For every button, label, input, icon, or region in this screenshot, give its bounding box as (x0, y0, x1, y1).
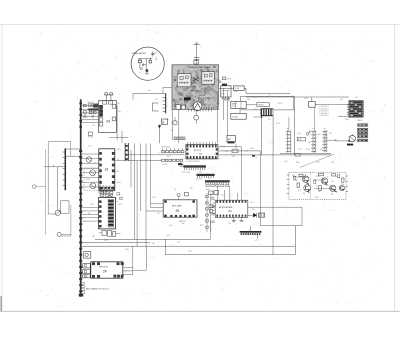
wire (45, 149, 47, 235)
svg-text:R109: R109 (345, 119, 349, 121)
svg-text:0.01: 0.01 (341, 184, 344, 186)
wire (171, 109, 173, 140)
wire (327, 140, 336, 141)
wire (217, 95, 219, 143)
IC 2F (91, 262, 124, 278)
svg-text:+ c: + c (109, 192, 111, 194)
diagonal leader (300, 154, 335, 167)
tuner shielded block (172, 65, 219, 111)
crystal X201 (99, 230, 121, 236)
transistor Q602 (304, 185, 311, 192)
svg-text:120: 120 (208, 178, 211, 180)
wires bus to IC 23 (81, 154, 99, 187)
svg-text:C204: C204 (297, 133, 301, 135)
svg-text:REMOTE IN: REMOTE IN (99, 267, 109, 269)
wire (146, 204, 163, 211)
rf amp symbol (193, 102, 202, 111)
svg-text:R109: R109 (214, 184, 218, 186)
arrow mark (306, 131, 310, 136)
wire (223, 88, 225, 120)
bus wire main (77, 97, 82, 297)
label AM chassis (86, 287, 109, 290)
grounds below IC 2X (232, 217, 244, 222)
wire (261, 116, 263, 155)
svg-text:C512: C512 (316, 162, 320, 164)
wire (218, 87, 233, 89)
svg-text:C512: C512 (304, 98, 308, 100)
wire (246, 104, 257, 106)
svg-text:ELECTRONIC TUNER: ELECTRONIC TUNER (190, 67, 211, 69)
node a (155, 57, 157, 61)
tuner bottom pins (189, 109, 212, 111)
svg-text:CN601: CN601 (357, 120, 362, 122)
transistor Q202 (90, 170, 96, 176)
component strip 2 (196, 174, 215, 181)
capacitor C21 (83, 116, 88, 119)
svg-text:C9: C9 (155, 53, 157, 55)
pin strip PW2 (311, 129, 317, 154)
wire (224, 190, 226, 200)
svg-text:0.01: 0.01 (252, 209, 255, 211)
capacitor C902 (143, 63, 147, 66)
wire (301, 207, 303, 226)
wire (216, 186, 218, 200)
wire (121, 131, 123, 143)
shield transformer L102 (202, 69, 215, 84)
svg-text:R211: R211 (225, 151, 229, 153)
wire (272, 116, 274, 155)
svg-text:R11 C12: R11 C12 (88, 102, 94, 104)
svg-text:Q2: Q2 (303, 193, 305, 195)
wire (95, 238, 211, 240)
svg-text:47uF: 47uF (86, 179, 90, 181)
svg-text:MIX 1OSC: MIX 1OSC (191, 91, 200, 93)
wire (44, 165, 65, 167)
wire (109, 136, 128, 138)
AFT box (227, 136, 235, 144)
wire (313, 107, 315, 130)
svg-text:C31 C32: C31 C32 (162, 164, 168, 166)
label audio box (303, 176, 337, 199)
wire (246, 92, 290, 94)
tuning assembly box (48, 142, 70, 214)
ceramic filter (231, 113, 246, 119)
svg-text:330: 330 (190, 188, 193, 190)
capacitor C901 (151, 52, 157, 57)
svg-text:R211: R211 (200, 225, 204, 227)
svg-text:560: 560 (88, 213, 91, 215)
mixer marks (191, 78, 200, 93)
wire (116, 160, 162, 162)
svg-text:05: 05 (296, 180, 298, 182)
svg-text:AM PO AMP: AM PO AMP (172, 204, 182, 207)
svg-text:C204: C204 (152, 197, 156, 199)
wire (335, 140, 350, 142)
wires in audio box (293, 177, 333, 188)
capacitor C22 (92, 115, 93, 118)
audio dashed box (289, 172, 346, 199)
connector pin label stack (357, 124, 367, 142)
IF filter CF101 (221, 84, 231, 100)
svg-text:R118: R118 (206, 189, 210, 191)
wire (338, 115, 349, 117)
wire (219, 154, 331, 156)
IC 20 (163, 200, 197, 217)
resistor row A (162, 147, 184, 153)
svg-text:Q3: Q3 (322, 178, 324, 180)
connector boxes left of 2F (83, 264, 91, 278)
label TP (88, 132, 93, 139)
svg-text:1 2 3 4 5 6 7 8 9 10: 1 2 3 4 5 6 7 8 9 10 (186, 161, 199, 163)
wire (81, 119, 99, 121)
component strip 3 (205, 180, 230, 186)
wire (145, 144, 147, 247)
svg-text:R109: R109 (316, 176, 320, 178)
node circles (224, 98, 229, 100)
svg-text:0.047: 0.047 (317, 134, 321, 136)
transistor Q201 (86, 157, 92, 163)
svg-text:R118: R118 (276, 123, 280, 125)
svg-text:C315: C315 (88, 146, 92, 148)
svg-text:o x: o x (116, 201, 118, 203)
svg-text:+: + (87, 117, 88, 119)
svg-text:R402: R402 (278, 103, 282, 105)
svg-text:24: 24 (106, 120, 110, 124)
resistor R220 (232, 144, 255, 157)
svg-text:330: 330 (116, 171, 119, 173)
svg-text:1500: 1500 (162, 151, 166, 153)
svg-text:120: 120 (292, 175, 295, 177)
connector CN501 (261, 108, 274, 116)
parts right of IC 20 (206, 193, 214, 239)
wire (81, 115, 99, 117)
wire (133, 94, 166, 100)
svg-text:1 2: 1 2 (269, 95, 271, 97)
svg-text:C118: C118 (298, 149, 302, 151)
wire (123, 246, 133, 274)
arrow down (158, 124, 161, 143)
svg-text:CF1: CF1 (222, 94, 225, 96)
label box P (297, 137, 305, 141)
svg-text:23: 23 (105, 167, 109, 171)
svg-text:CN 501: CN 501 (258, 105, 264, 107)
ferrite bead box (258, 213, 264, 217)
transistor Q604 (330, 185, 336, 191)
resistor R902 (149, 57, 151, 63)
wire (65, 149, 80, 156)
transistor Q605 (339, 185, 344, 190)
svg-text:C315: C315 (205, 219, 209, 221)
svg-text:330: 330 (268, 119, 271, 121)
label box on wire (295, 154, 301, 156)
wire (61, 205, 71, 236)
svg-text:0.01: 0.01 (118, 111, 121, 113)
svg-text:2F: 2F (103, 270, 107, 274)
wire (253, 116, 262, 117)
svg-text:100: 100 (335, 176, 338, 178)
svg-text:20: 20 (176, 209, 180, 213)
wire loop (241, 96, 294, 110)
transistor Q501 (349, 134, 355, 142)
bus terminal (79, 283, 84, 297)
pin strip PW3 (322, 129, 328, 153)
components left of IC 24 (81, 102, 99, 114)
parts inside tuner (174, 79, 213, 109)
capacitor above tuner (194, 42, 201, 64)
svg-text:Q4: Q4 (331, 194, 333, 196)
wire (240, 147, 242, 200)
connector J601 (240, 226, 262, 235)
transistor Q601 (303, 174, 309, 182)
svg-text:R211: R211 (117, 149, 121, 151)
IC 2X (215, 200, 248, 217)
pin strip PW1 (286, 129, 292, 154)
IC 23 (99, 149, 115, 191)
wire (133, 246, 146, 270)
svg-text:0.047: 0.047 (118, 204, 122, 206)
box VR block (61, 201, 69, 213)
wire (288, 117, 290, 131)
svg-text:C118: C118 (104, 240, 108, 242)
resistors in audio box (287, 173, 348, 193)
svg-text:C512: C512 (180, 163, 184, 165)
svg-text:3 2 6 4 1 8 5: 3 2 6 4 1 8 5 (182, 172, 190, 174)
IC 25 (99, 197, 116, 229)
svg-text:R305: R305 (234, 91, 238, 93)
svg-text:C118: C118 (188, 251, 192, 253)
resistor bar R601 (347, 144, 353, 146)
wire (248, 206, 302, 208)
wire (236, 193, 238, 200)
svg-text:C204: C204 (90, 204, 94, 206)
svg-text:R402: R402 (296, 162, 300, 164)
transistor Q603 (322, 178, 328, 184)
component value labels (84, 90, 358, 253)
IC 2B (186, 142, 218, 163)
wire (293, 96, 295, 155)
wire (244, 88, 246, 93)
svg-text:CX 480: CX 480 (232, 116, 238, 118)
wire (128, 154, 184, 156)
connector edge (163, 93, 168, 113)
wire (259, 151, 261, 226)
wire (81, 122, 99, 124)
meter M901 (140, 68, 143, 74)
components left of IC 2X (209, 190, 219, 213)
wire (163, 87, 172, 93)
svg-text:B 12: B 12 (298, 139, 302, 141)
wire (178, 109, 180, 143)
wire (150, 144, 152, 208)
wire (239, 109, 241, 114)
jack J102 (194, 109, 199, 124)
terminal box (161, 119, 167, 124)
pin stub (105, 93, 114, 101)
wire (136, 161, 138, 247)
svg-text:120: 120 (355, 97, 358, 99)
resistor R201 (216, 77, 232, 84)
wire (294, 226, 296, 255)
svg-text:R305: R305 (125, 249, 129, 251)
wire (164, 239, 166, 254)
svg-text:P3: P3 (324, 129, 326, 131)
resistor row B (162, 159, 183, 166)
svg-text:1 3 5 2 6: 1 3 5 2 6 (196, 179, 202, 181)
wires bus to IC 25 (81, 208, 99, 222)
transistor Q901 (145, 69, 149, 74)
SAW filter (231, 101, 246, 108)
svg-text:TP 470: TP 470 (88, 137, 93, 139)
wire (140, 144, 142, 212)
svg-text:560: 560 (308, 142, 311, 144)
svg-text:R305: R305 (306, 149, 310, 151)
transistor Q203 (90, 183, 96, 189)
svg-text:R402: R402 (167, 156, 171, 158)
capacitor block C601 (84, 252, 91, 258)
wire (219, 150, 260, 152)
svg-text:0.1uF 50V x: 0.1uF 50V x (320, 115, 329, 117)
svg-text:0.01: 0.01 (148, 90, 151, 92)
svg-text:x2: x2 (255, 240, 257, 242)
components above IC 25 (99, 185, 113, 194)
svg-text:47uF: 47uF (250, 148, 254, 150)
component strip below IC 2B (178, 163, 206, 174)
bus bar left (63, 148, 66, 190)
wire (246, 95, 349, 97)
component above IC 20 (177, 192, 188, 199)
svg-text:0.047: 0.047 (166, 235, 170, 237)
wire (272, 155, 274, 255)
wire (57, 167, 59, 211)
wire (139, 59, 153, 71)
components below IC 23 (99, 191, 122, 207)
dashed group box (84, 169, 101, 191)
svg-text:AM 205: AM 205 (180, 220, 186, 223)
svg-text:T: T (200, 46, 201, 48)
delay line DL101 (233, 86, 244, 91)
svg-text:V 201: V 201 (232, 106, 236, 108)
svg-text:TUNING METER: TUNING METER (131, 53, 146, 55)
label below CN601 (357, 120, 362, 122)
svg-text:2X: 2X (229, 209, 232, 213)
wire (229, 186, 231, 200)
label TUNING METER (131, 53, 146, 55)
detail callout circle (131, 47, 164, 80)
svg-text:100: 100 (221, 195, 224, 197)
svg-text:AM CHASSIS P.C.B (2/2): AM CHASSIS P.C.B (2/2) (86, 287, 109, 290)
wire (280, 153, 331, 155)
svg-text:R21 R22 R23: R21 R22 R23 (162, 147, 171, 149)
bus segment mid (125, 143, 128, 161)
wire (130, 150, 132, 187)
trimmer VR902 (57, 232, 71, 236)
wire (255, 235, 257, 242)
wire (81, 242, 150, 244)
IC 24 (99, 101, 117, 133)
svg-text:100: 100 (84, 114, 87, 116)
wire (227, 91, 229, 136)
note text block (320, 106, 329, 117)
wire (165, 254, 295, 256)
svg-text:a: a (156, 57, 157, 59)
svg-text:BM 4 C2: BM 4 C2 (198, 98, 205, 100)
connector CN501 label (257, 103, 270, 107)
trimmer VR901 (55, 210, 60, 215)
svg-text:560: 560 (157, 213, 160, 215)
pins above IC 2B (174, 137, 185, 140)
svg-text:1500: 1500 (284, 161, 288, 163)
svg-text:BX-1C18: BX-1C18 (194, 150, 201, 152)
label below IC 20 (180, 220, 186, 224)
resistor R501 (309, 97, 316, 107)
resistor R901 (138, 59, 142, 63)
shield transformer L101 (177, 71, 191, 87)
svg-text:x 1 u: x 1 u (198, 100, 202, 102)
bracket loop (152, 103, 158, 111)
diode D601 (248, 213, 257, 218)
svg-text:1500: 1500 (254, 109, 258, 111)
svg-text:11: 11 (316, 186, 318, 188)
svg-text:47uF: 47uF (169, 225, 173, 227)
connector CN601 (347, 101, 363, 118)
wire (81, 245, 296, 247)
svg-text:R118: R118 (117, 182, 121, 184)
wire (315, 103, 349, 105)
jack J101 (173, 117, 177, 125)
wire (260, 225, 302, 227)
wire (134, 144, 136, 240)
wire (116, 106, 118, 141)
svg-text:DL 101: DL 101 (234, 88, 239, 90)
label ELECTRONIC TUNER (190, 67, 211, 69)
ground lug (32, 185, 45, 189)
wire (219, 146, 242, 148)
